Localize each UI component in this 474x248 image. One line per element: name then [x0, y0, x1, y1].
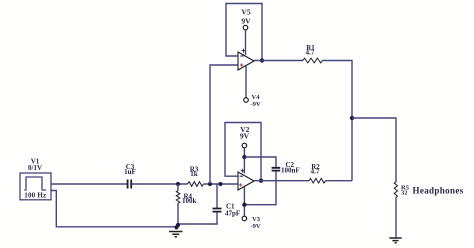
feedback loop wire lower op-amp — [225, 123, 261, 181]
svg-text:9V: 9V — [241, 17, 251, 26]
svg-text:4.7: 4.7 — [311, 168, 320, 176]
pin marker inverting input lower — [240, 175, 243, 177]
pin marker V+ supply upper — [242, 49, 246, 53]
node junction R4 tap — [176, 182, 180, 186]
feedback loop wire upper op-amp — [226, 4, 262, 61]
capacitor C3 — [128, 180, 132, 189]
wire op-amp output to R1 — [254, 60, 303, 62]
wire V1 output to C3 — [51, 183, 127, 185]
wire R2 to summing node — [326, 180, 353, 182]
label C3 — [126, 163, 135, 171]
label R5 — [401, 184, 410, 191]
svg-text:0/1V: 0/1V — [28, 164, 42, 172]
label R1 value 4.7 — [306, 49, 315, 57]
label C2 value 100nF — [281, 166, 300, 174]
terminal V2 — [242, 143, 247, 173]
wire R3 to op-amp input — [204, 183, 239, 185]
terminal V3 — [242, 187, 247, 221]
label C1 — [226, 203, 235, 211]
label C2 — [286, 161, 295, 169]
label V2 — [240, 125, 249, 134]
svg-text:V3: V3 — [252, 216, 261, 223]
label R4 — [184, 193, 193, 201]
label R3 value 1k — [190, 170, 198, 178]
wire R5 to ground — [395, 198, 397, 238]
wire C3 to R3 — [132, 183, 188, 185]
capacitor C1 — [179, 184, 222, 224]
terminal V5 — [243, 25, 248, 55]
label C3 value 1uF — [124, 168, 136, 176]
svg-text:100 Hz: 100 Hz — [24, 192, 46, 200]
node junction buffer branch — [208, 182, 212, 186]
node junction headphone feed — [350, 116, 354, 120]
svg-text:Headphones: Headphones — [413, 186, 464, 196]
voltage source V1 pulse generator box — [20, 173, 51, 200]
label V1 — [31, 158, 40, 166]
resistor R2 — [309, 178, 326, 183]
resistor R3 — [188, 182, 204, 187]
svg-text:9V: 9V — [240, 132, 250, 141]
label V1 value 0/1V — [28, 164, 42, 172]
label R5 value 32 — [401, 189, 408, 196]
node junction upper op-amp output — [260, 58, 264, 62]
label V2 value 9V — [240, 132, 250, 141]
resistor R5 — [394, 182, 397, 198]
ground left — [169, 232, 183, 237]
label node Headphones — [413, 186, 464, 196]
svg-text:V4: V4 — [252, 94, 261, 101]
svg-text:-9V: -9V — [251, 101, 261, 108]
wire branch up to upper op-amp input — [210, 65, 238, 184]
wire summing node to headphone resistor — [352, 118, 396, 182]
pin marker V+ supply lower — [241, 169, 245, 173]
node junction lower op-amp output — [259, 179, 263, 183]
label V4 value -9V — [251, 101, 261, 108]
svg-text:100nF: 100nF — [281, 166, 300, 174]
node junction ground left — [174, 223, 180, 230]
svg-text:1uF: 1uF — [124, 168, 136, 176]
wire R1 to summing node — [322, 61, 352, 181]
label R2 — [311, 163, 320, 171]
wire lower op-amp output to R2 — [254, 180, 309, 182]
node junction V+ bypass tap — [242, 155, 246, 159]
label R1 — [306, 44, 315, 52]
label R4 value 100k — [182, 197, 197, 205]
op-amp U1 upper buffer — [238, 52, 254, 70]
svg-text:V5: V5 — [241, 7, 250, 16]
svg-text:32: 32 — [401, 189, 408, 196]
svg-text:4.7: 4.7 — [306, 49, 315, 57]
label V3 — [252, 216, 261, 223]
terminal V4 — [244, 66, 249, 102]
label R2 value 4.7 — [311, 168, 320, 176]
label C1 value 47pF — [225, 210, 240, 218]
pin marker inverting input upper — [240, 55, 243, 57]
label V3 value -9V — [251, 223, 261, 230]
label R3 — [190, 166, 199, 174]
svg-text:-9V: -9V — [251, 223, 261, 230]
svg-text:47pF: 47pF — [225, 210, 240, 218]
pin marker non-inverting input lower — [239, 183, 242, 186]
node junction C1 tap — [218, 182, 222, 186]
label V5 value 9V — [241, 17, 251, 26]
op-amp U2 lower buffer — [238, 172, 254, 190]
resistor R4 — [176, 184, 180, 227]
ground right — [389, 238, 401, 243]
resistor R1 — [303, 58, 322, 63]
pin marker non-inverting input upper — [240, 63, 243, 66]
label V4 — [252, 94, 261, 101]
node junction V- bypass tap — [242, 203, 246, 207]
label V1 frequency 100 Hz — [24, 192, 46, 200]
svg-text:100k: 100k — [182, 197, 197, 205]
label V5 — [241, 7, 250, 16]
svg-text:1k: 1k — [190, 170, 198, 178]
wire V1 return to ground — [51, 191, 176, 227]
capacitor C2 bypass — [244, 157, 280, 205]
